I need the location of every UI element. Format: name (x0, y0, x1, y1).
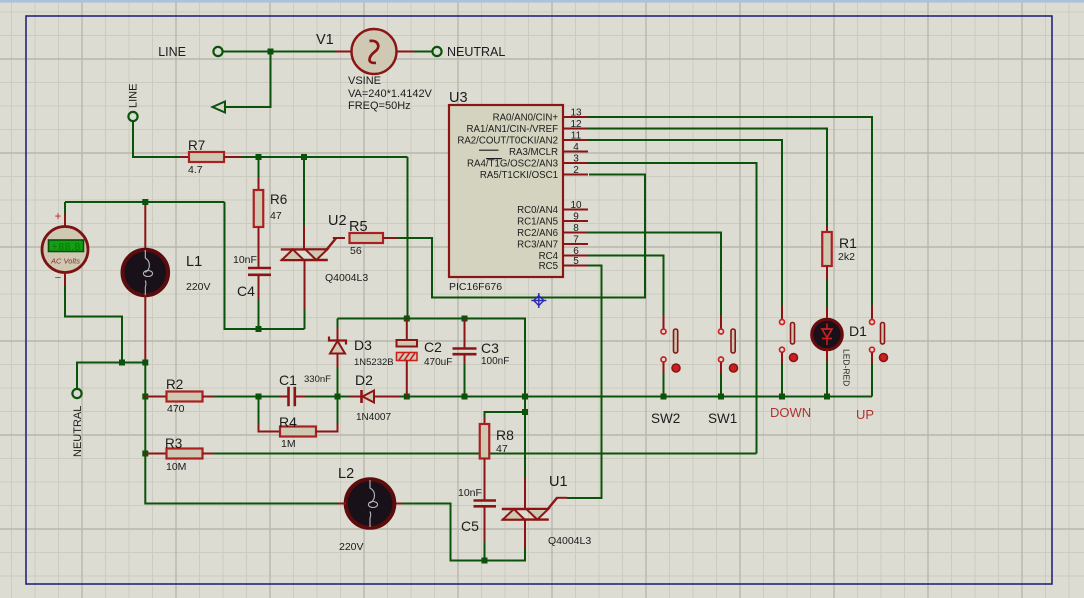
svg-text:1N5232B: 1N5232B (354, 357, 394, 368)
wire R4 branch down (258, 397, 260, 424)
resistor R5 (350, 233, 384, 243)
lead D3 bottom (337, 354, 339, 369)
lead L1 top (144, 205, 146, 250)
switch SW1 (720, 315, 722, 329)
svg-text:D1: D1 (849, 323, 867, 339)
svg-text:C3: C3 (481, 340, 499, 356)
lead C1 right (295, 396, 306, 398)
wire to ground (225, 52, 271, 108)
lead C3 top (464, 319, 466, 349)
lead R5 right (383, 237, 398, 239)
svg-text:C2: C2 (424, 339, 442, 355)
LED D1 (812, 319, 842, 349)
lead R2 right (203, 396, 215, 398)
svg-text:C4: C4 (237, 283, 255, 299)
junction C3 top (462, 316, 468, 322)
wire R5 to RA5 pin2 (398, 175, 645, 298)
lead R1 top (826, 226, 828, 232)
terminal NEUTRAL (top) (432, 47, 441, 56)
svg-text:10nF: 10nF (458, 487, 482, 499)
lead D1 bottom (826, 350, 828, 363)
svg-text:C1: C1 (279, 372, 297, 388)
wire pin12 to R1 (588, 129, 827, 227)
svg-text:+88.8: +88.8 (52, 241, 81, 253)
svg-text:U2: U2 (328, 213, 347, 229)
wire R7 row (242, 156, 408, 158)
zener D3 1N5232B (329, 337, 346, 345)
lead R3 right (203, 453, 215, 455)
svg-text:7: 7 (573, 235, 579, 246)
junction L1 bottom (142, 360, 148, 366)
svg-text:RA0/AN0/CIN+: RA0/AN0/CIN+ (493, 113, 559, 124)
junction R8 tap (522, 409, 528, 415)
junction at ground tap (268, 49, 274, 55)
lead C2 bottom (406, 361, 408, 397)
lead R6 to C4 (258, 227, 260, 267)
lead D2 left (350, 396, 361, 398)
svg-text:U1: U1 (549, 474, 568, 490)
triac U2 (281, 249, 328, 260)
svg-text:RC0/AN4: RC0/AN4 (517, 205, 559, 216)
svg-text:L1: L1 (186, 254, 202, 270)
lead U2 MT2 top (303, 157, 305, 226)
lead L2 right (394, 503, 402, 505)
svg-text:SW2: SW2 (651, 411, 680, 426)
junction C2 bottom (404, 394, 410, 400)
svg-text:100nF: 100nF (481, 356, 509, 367)
resistor R7 (189, 152, 224, 162)
wire U2 gate to R5 (333, 237, 345, 239)
button UP (871, 305, 873, 320)
svg-text:+: + (55, 211, 62, 223)
junction U2 MT2 (301, 154, 307, 160)
svg-text:2: 2 (573, 165, 579, 176)
svg-text:R5: R5 (349, 219, 368, 235)
lead R2 left (145, 396, 166, 398)
meter AC Volts (42, 227, 88, 273)
lead C2 top (406, 319, 408, 341)
lead V1 right (397, 51, 414, 53)
svg-text:10: 10 (570, 200, 582, 211)
lead R1 to D1 (826, 266, 828, 280)
lead R7 right (224, 156, 242, 158)
resistor R4 (280, 427, 316, 437)
lead R4 right (316, 424, 338, 432)
junction R3 row (142, 451, 148, 457)
junction D3/R4 vertical (335, 394, 341, 400)
switch SW2 (663, 315, 665, 329)
svg-text:3: 3 (573, 154, 579, 165)
lead L1 bottom (144, 295, 146, 363)
junction SW2 bottom (661, 394, 667, 400)
svg-text:470: 470 (167, 403, 185, 415)
ground (213, 102, 226, 113)
wire drop to C2 rail (407, 157, 409, 319)
resistor R2 (167, 392, 203, 402)
lead R3 left (145, 453, 166, 455)
lead U2 MT1 (304, 310, 306, 329)
junction C3 bottom (462, 394, 468, 400)
top window strip (0, 0, 1084, 3)
button DOWN (781, 305, 783, 320)
svg-text:D3: D3 (354, 337, 372, 353)
IC U3 PIC16F676 (449, 105, 563, 277)
svg-text:Q4004L3: Q4004L3 (548, 535, 591, 547)
svg-text:FREQ=50Hz: FREQ=50Hz (348, 100, 411, 112)
svg-text:RC1/AN5: RC1/AN5 (517, 217, 558, 228)
svg-text:LINE: LINE (158, 45, 186, 59)
wire pin5 to U1 gate (567, 266, 602, 499)
junction L1 top (142, 199, 148, 205)
origin marker (531, 293, 546, 308)
wire pin3 to R3 row (588, 163, 757, 454)
lead D2 right (374, 396, 399, 398)
svg-text:PIC16F676: PIC16F676 (449, 281, 502, 293)
svg-text:4: 4 (573, 142, 579, 153)
svg-text:L2: L2 (338, 466, 354, 482)
svg-text:RC3/AN7: RC3/AN7 (517, 240, 558, 251)
svg-text:R8: R8 (496, 427, 514, 443)
svg-text:V1: V1 (316, 32, 334, 48)
svg-text:R2: R2 (166, 377, 183, 392)
terminal LINE (top) (213, 47, 222, 56)
svg-text:RC2/AN6: RC2/AN6 (517, 228, 558, 239)
junction meter return (119, 360, 125, 366)
svg-text:Q4004L3: Q4004L3 (325, 272, 368, 284)
wire pin11 to DOWN (588, 140, 782, 305)
svg-text:VSINE: VSINE (348, 75, 381, 87)
svg-text:−: − (55, 273, 62, 285)
voltage source V1 VSINE (352, 29, 397, 74)
svg-text:RA5/T1CKI/OSC1: RA5/T1CKI/OSC1 (480, 170, 558, 181)
wire main rail (399, 396, 872, 398)
svg-text:10M: 10M (166, 461, 186, 473)
wire U1 gate (557, 497, 568, 499)
lamp L2 (346, 479, 395, 528)
svg-text:220V: 220V (339, 541, 364, 553)
triac U1 (502, 509, 549, 520)
wire R6 top lead (258, 157, 260, 177)
svg-text:R4: R4 (279, 414, 297, 430)
svg-text:11: 11 (571, 131, 582, 142)
svg-text:RC5: RC5 (539, 261, 558, 272)
wire meter minus lead (64, 272, 66, 285)
lead L2 left (338, 503, 346, 505)
wire pin6 to SW2 (588, 256, 664, 316)
svg-text:RA3/MCLR: RA3/MCLR (509, 147, 558, 158)
svg-text:4.7: 4.7 (188, 164, 203, 176)
lamp L1 (123, 250, 169, 296)
wire C1 to D2 (306, 396, 350, 398)
resistor R3 (167, 449, 203, 459)
svg-text:9: 9 (573, 212, 579, 223)
overline MCLR (479, 149, 499, 151)
resistor R6 (254, 190, 264, 227)
capacitor C1 (289, 387, 295, 407)
junction R2 row (142, 394, 148, 400)
junction R4 branch (256, 394, 262, 400)
svg-text:U3: U3 (449, 90, 468, 106)
svg-text:1M: 1M (281, 438, 296, 450)
svg-text:56: 56 (350, 245, 362, 257)
svg-text:AC Volts: AC Volts (50, 257, 80, 266)
wire R8 top (485, 412, 526, 417)
svg-text:NEUTRAL: NEUTRAL (72, 406, 84, 457)
wire pin8 to SW1 (588, 233, 721, 316)
wire R3 row to pin3 drop (214, 453, 757, 455)
svg-text:R3: R3 (165, 436, 182, 451)
wire zener top rail (338, 319, 526, 397)
lead V1 left (336, 51, 352, 53)
wire R4 up to rail (337, 397, 339, 425)
wire LINE-left to R7 (133, 121, 180, 157)
svg-text:R6: R6 (270, 192, 287, 207)
svg-text:NEUTRAL: NEUTRAL (447, 45, 505, 59)
svg-text:220V: 220V (186, 281, 211, 293)
svg-text:47: 47 (496, 443, 508, 455)
svg-text:47: 47 (270, 210, 282, 222)
wire R2 to C1 (214, 396, 280, 398)
svg-text:D2: D2 (355, 372, 373, 388)
junction C5 bottom rail (482, 558, 488, 564)
svg-text:330nF: 330nF (304, 374, 331, 385)
wire D3 top from rail (337, 319, 339, 328)
junction DOWN bottom (779, 394, 785, 400)
svg-text:LED-RED: LED-RED (842, 349, 852, 386)
resistor R1 (822, 232, 832, 266)
lead R7 left (180, 156, 189, 158)
diode D2 1N4007 (360, 390, 363, 403)
capacitor C5 10nF (474, 501, 497, 507)
svg-text:UP: UP (856, 407, 874, 422)
lead C4 bottom (258, 275, 260, 300)
svg-text:VA=240*1.4142V: VA=240*1.4142V (348, 88, 433, 100)
svg-text:LINE: LINE (128, 84, 140, 108)
lead C5 bottom (484, 506, 486, 541)
svg-text:470uF: 470uF (424, 357, 452, 368)
svg-text:10nF: 10nF (233, 254, 257, 266)
wire top-left rail (65, 201, 225, 203)
wire V1 to NEUTRAL (413, 51, 432, 53)
lead C3 bottom (464, 354, 466, 363)
wire LINE to V1 (223, 51, 336, 53)
svg-text:8: 8 (573, 223, 579, 234)
junction C2 top (404, 316, 410, 322)
overline T1G (486, 158, 502, 160)
svg-text:R7: R7 (188, 138, 205, 153)
capacitor C2 470uF (397, 340, 418, 347)
svg-text:RA4/T1G/OSC2/AN3: RA4/T1G/OSC2/AN3 (467, 159, 558, 170)
svg-text:1N4007: 1N4007 (356, 412, 391, 423)
svg-text:C5: C5 (461, 518, 479, 534)
junction SW1 bottom (718, 394, 724, 400)
capacitor C3 100nF (453, 349, 477, 355)
svg-text:SW1: SW1 (708, 411, 737, 426)
wire neutral riser (77, 363, 145, 390)
wire U1 bottom to L2 loop (402, 504, 525, 561)
svg-text:13: 13 (570, 108, 582, 119)
svg-text:12: 12 (570, 119, 582, 130)
wire pin13 to UP (588, 117, 872, 305)
junction C4 bottom (256, 326, 262, 332)
junction D1 bottom (824, 394, 830, 400)
svg-text:5: 5 (573, 256, 579, 267)
svg-text:DOWN: DOWN (770, 405, 811, 420)
wire meter plus lead (64, 202, 66, 214)
svg-text:R1: R1 (839, 235, 857, 251)
lead U1 MT2 (524, 478, 526, 508)
wire left vertical (145, 363, 338, 504)
capacitor C4 (248, 268, 271, 275)
lead U1 MT1 (524, 520, 526, 548)
lead C1 left (280, 396, 288, 398)
resistor R8 (480, 424, 490, 459)
wire rail down to C4/U2 return (225, 202, 305, 329)
svg-text:2k2: 2k2 (838, 251, 855, 263)
junction R6 top (256, 154, 262, 160)
lead R8 to C5 (484, 459, 486, 501)
wire snubber column down (524, 397, 526, 479)
svg-text:RA2/COUT/T0CKI/AN2: RA2/COUT/T0CKI/AN2 (457, 136, 558, 147)
svg-text:RA1/AN1/CIN-/VREF: RA1/AN1/CIN-/VREF (466, 124, 558, 135)
junction snubber column (522, 394, 528, 400)
